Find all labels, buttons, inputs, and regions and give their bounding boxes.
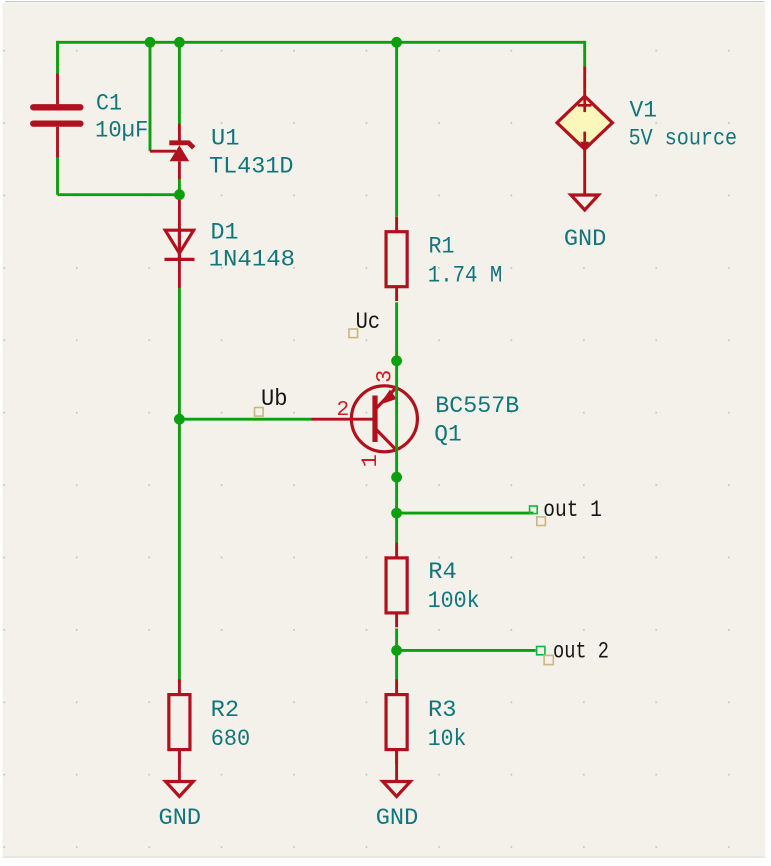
svg-text:out 2: out 2 (553, 639, 609, 665)
svg-text:D1: D1 (211, 220, 239, 246)
svg-text:GND: GND (159, 805, 202, 831)
svg-text:R4: R4 (428, 559, 457, 585)
svg-text:1: 1 (358, 454, 383, 467)
svg-text:Q1: Q1 (434, 421, 462, 447)
svg-text:3: 3 (373, 370, 398, 383)
svg-text:1N4148: 1N4148 (209, 247, 296, 273)
svg-text:V1: V1 (630, 98, 658, 124)
svg-text:R2: R2 (211, 697, 240, 723)
svg-text:R3: R3 (428, 697, 457, 723)
svg-text:100k: 100k (428, 588, 480, 614)
svg-text:Ub: Ub (261, 386, 288, 412)
svg-text:C1: C1 (96, 91, 122, 117)
svg-text:GND: GND (376, 805, 419, 831)
svg-text:out 1: out 1 (543, 497, 602, 523)
svg-text:R1: R1 (429, 234, 455, 260)
svg-text:Uc: Uc (356, 309, 381, 335)
svg-text:5V source: 5V source (629, 126, 738, 152)
svg-text:GND: GND (564, 226, 607, 252)
svg-text:TL431D: TL431D (209, 154, 294, 180)
svg-text:BC557B: BC557B (435, 393, 519, 419)
svg-text:10k: 10k (428, 726, 467, 752)
svg-text:680: 680 (211, 726, 251, 752)
svg-text:10µF: 10µF (95, 118, 148, 144)
svg-text:2: 2 (336, 398, 349, 422)
svg-text:U1: U1 (211, 126, 240, 152)
svg-text:1.74 M: 1.74 M (428, 263, 503, 289)
